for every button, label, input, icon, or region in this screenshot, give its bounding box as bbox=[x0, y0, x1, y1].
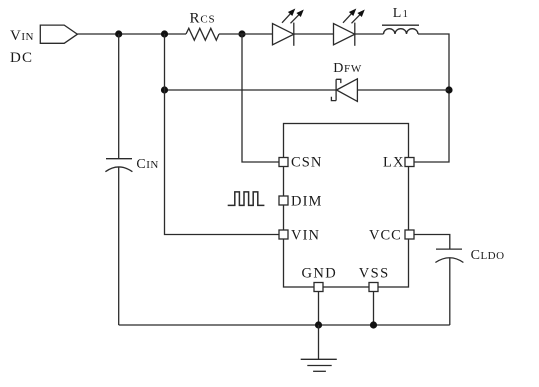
svg-text:VCC: VCC bbox=[369, 228, 402, 244]
pin GND bbox=[314, 283, 323, 292]
svg-text:RCS: RCS bbox=[190, 10, 216, 26]
wire DFW rail right segment bbox=[357, 89, 449, 91]
svg-text:GND: GND bbox=[302, 265, 338, 281]
LED D2 bbox=[334, 9, 365, 46]
IC U1 body bbox=[284, 124, 409, 288]
svg-text:DIM: DIM bbox=[291, 194, 323, 210]
capacitor CLDO bbox=[435, 249, 463, 262]
svg-text:CLDO: CLDO bbox=[471, 248, 505, 263]
node junction dot inductor output to DFW rail bbox=[445, 86, 452, 93]
wire top rail from connector to resistor bbox=[77, 33, 186, 35]
wire DFW rail left segment bbox=[165, 89, 337, 91]
wire left branch x=164 down to VIN pin bbox=[165, 34, 280, 235]
LED D1 bbox=[273, 9, 304, 46]
wire CSN branch x=242 down to CSN pin bbox=[242, 34, 279, 162]
DIM pulse waveform symbol bbox=[228, 192, 265, 206]
inductor L1 bbox=[382, 25, 419, 34]
svg-text:CIN: CIN bbox=[136, 157, 158, 172]
svg-text:VIN: VIN bbox=[10, 28, 34, 44]
wire LED2 to inductor bbox=[355, 33, 384, 35]
connector VIN DC input bbox=[40, 25, 77, 43]
wire VCC to CLDO bbox=[414, 235, 450, 250]
svg-text:DC: DC bbox=[10, 50, 33, 66]
svg-text:L1: L1 bbox=[393, 6, 408, 21]
ground bbox=[301, 325, 337, 371]
wire VSS pin down bbox=[373, 292, 375, 326]
wire CIN branch upper bbox=[118, 34, 120, 158]
svg-text:LX: LX bbox=[383, 155, 405, 171]
wire CIN lower to bottom rail bbox=[118, 167, 120, 325]
node junction dot DFW rail left bbox=[161, 86, 168, 93]
wire GND pin down bbox=[318, 292, 320, 326]
pin VSS bbox=[369, 283, 378, 292]
pin VCC bbox=[405, 230, 414, 239]
pin VIN bbox=[279, 230, 288, 239]
svg-text:VIN: VIN bbox=[291, 228, 320, 244]
capacitor CIN bbox=[105, 159, 132, 172]
node junction dot at CIN branch bbox=[115, 30, 122, 37]
node junction dot at CSN branch bbox=[238, 30, 245, 37]
svg-text:VSS: VSS bbox=[359, 265, 390, 281]
node junction dot GND at bottom rail bbox=[315, 321, 322, 328]
resistor RCS bbox=[186, 28, 219, 40]
wire inductor to right rail corner and down to LX level bbox=[414, 34, 449, 162]
wire LED1 to LED2 bbox=[294, 33, 334, 35]
pin DIM bbox=[279, 196, 288, 205]
pin CSN bbox=[279, 158, 288, 167]
svg-text:CSN: CSN bbox=[291, 155, 323, 171]
svg-text:DFW: DFW bbox=[333, 61, 362, 76]
wire bottom ground rail bbox=[119, 324, 450, 326]
pin LX bbox=[405, 158, 414, 167]
wire CLDO to bottom rail bbox=[449, 258, 451, 325]
diode DFW schottky bbox=[331, 79, 357, 102]
node junction dot VSS at bottom rail bbox=[370, 321, 377, 328]
node junction dot at VIN branch bbox=[161, 30, 168, 37]
wire from resistor to LED1 bbox=[219, 33, 273, 35]
